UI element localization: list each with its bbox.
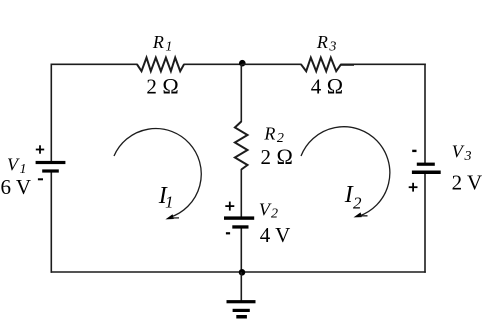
svg-text:V: V [7, 155, 20, 175]
battery V3 (2V source) plates [412, 163, 441, 174]
svg-text:V: V [452, 142, 465, 162]
label I2 [344, 182, 362, 212]
battery V3 minus sign [412, 150, 416, 152]
label I1 [158, 183, 174, 212]
label V1 [7, 155, 27, 178]
svg-text:2Ω: 2Ω [261, 144, 293, 169]
battery V1 plus sign [36, 145, 44, 153]
node B: bottom junction dot [239, 269, 246, 276]
svg-text:3: 3 [464, 149, 472, 164]
battery V3 plus sign [409, 183, 418, 192]
label V2 [259, 199, 278, 221]
node A: top junction dot [239, 60, 246, 67]
svg-text:4 V: 4 V [260, 223, 291, 247]
wire: top segment right (R3 to top-right corner) [341, 63, 426, 65]
battery V1 (6V source) plates [36, 161, 66, 173]
wire: middle vertical between V2 and bottom node [240, 228, 242, 273]
label R2 [263, 124, 284, 147]
svg-text:R: R [263, 124, 275, 144]
wire: left vertical upper (V1 to top-left corner) [50, 64, 52, 162]
svg-text:2: 2 [353, 194, 362, 213]
svg-text:V: V [259, 199, 272, 219]
label R1 [152, 32, 173, 55]
resistor R1 zigzag [137, 58, 184, 72]
svg-text:2: 2 [271, 207, 278, 222]
mesh current loop I1 arc [114, 129, 201, 218]
wire: middle vertical between R2 and V2 [240, 169, 242, 217]
wire: right vertical lower (V3 to bottom-right corner) [424, 173, 426, 273]
wire: R3 right lead overlap [341, 64, 355, 66]
resistor R3 zigzag [301, 58, 341, 72]
battery V2 plus sign [225, 202, 234, 211]
svg-text:4Ω: 4Ω [311, 74, 343, 99]
label V3 [452, 142, 472, 164]
battery V2 (4V source) plates [224, 216, 254, 228]
battery V1 minus sign [38, 178, 43, 180]
ground symbol [227, 300, 256, 318]
svg-text:2 V: 2 V [452, 171, 483, 195]
resistor R2 zigzag [235, 122, 248, 170]
wire: top segment between node A and R3 [242, 63, 302, 65]
label R3 [316, 32, 337, 55]
wire: top segment between R1 and node A [184, 63, 243, 65]
wire: right vertical upper (corner to V3) [424, 64, 426, 164]
svg-text:2Ω: 2Ω [146, 74, 178, 99]
mesh current loop I2 arrowhead [354, 212, 368, 217]
svg-text:R: R [316, 32, 328, 52]
svg-text:3: 3 [328, 39, 336, 54]
mesh current loop I2 arc [301, 127, 390, 217]
battery V2 minus sign [226, 232, 230, 234]
wire: middle vertical upper (node A to R2) [240, 64, 242, 122]
wire: top segment left (corner to R1) [51, 63, 138, 65]
svg-text:1: 1 [165, 193, 174, 212]
wire: bottom horizontal [51, 271, 426, 273]
wire: left vertical lower (V1 to bottom-left corner) [50, 172, 52, 273]
svg-text:6 V: 6 V [1, 175, 32, 199]
svg-text:1: 1 [165, 40, 172, 55]
wire: ground stem [240, 272, 242, 301]
svg-text:R: R [152, 32, 164, 52]
mesh current loop I1 arrowhead [165, 214, 179, 219]
